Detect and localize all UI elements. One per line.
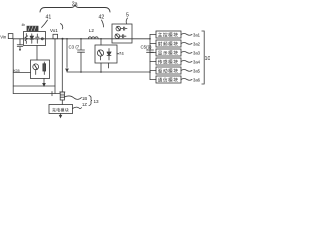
svg-text:Vo1: Vo1	[50, 28, 58, 33]
transistor Q5	[115, 34, 120, 39]
wire KD5	[13, 72, 30, 74]
transistor Q3	[107, 49, 111, 61]
svg-text:Vin: Vin	[0, 35, 7, 40]
svg-text:74: 74	[119, 51, 124, 56]
wire link box1 to box2	[36, 46, 38, 61]
wire mid module bottom	[67, 71, 150, 73]
leader 3a1	[181, 34, 192, 36]
arrow to bottom rail	[43, 79, 45, 87]
capacitor C1 input	[17, 39, 23, 50]
svg-text:41: 41	[46, 15, 52, 21]
leader from 74	[117, 52, 119, 55]
box power R.P.S.	[49, 105, 73, 114]
leader 12	[73, 107, 82, 109]
svg-text:驱动模块: 驱动模块	[158, 68, 179, 75]
svg-text:13: 13	[94, 99, 100, 104]
svg-text:4b: 4b	[22, 23, 26, 27]
brace 2a	[40, 5, 110, 13]
connector J1	[60, 91, 65, 93]
diode D1	[30, 34, 33, 44]
svg-text:3a1: 3a1	[193, 33, 201, 38]
box output 6	[156, 76, 181, 83]
leader 11	[64, 96, 81, 99]
svg-text:KD5: KD5	[14, 69, 20, 73]
transistor Q2	[97, 50, 103, 56]
capacitor C5	[147, 50, 154, 52]
leader from 41	[42, 20, 48, 28]
capacitor C3	[78, 39, 85, 72]
svg-text:通信模块: 通信模块	[158, 77, 179, 84]
svg-text:L2: L2	[89, 28, 95, 33]
box switch U4	[112, 24, 132, 43]
leader 3a5	[181, 70, 192, 72]
leader from 42	[102, 20, 104, 27]
arrow below box	[59, 114, 61, 118]
terminal Vin	[8, 34, 13, 39]
bracket 10	[202, 31, 204, 84]
svg-text:传感模块: 传感模块	[158, 59, 179, 66]
svg-text:3a5: 3a5	[193, 69, 201, 74]
svg-text:1Z: 1Z	[82, 102, 87, 107]
leader 3a4	[181, 61, 192, 63]
transistor Q1	[33, 64, 39, 70]
wire left module left edge	[12, 39, 14, 94]
transistor Q4	[116, 26, 121, 31]
box rectifier U3	[95, 45, 117, 63]
leader 3a6	[181, 79, 192, 81]
svg-text:10: 10	[205, 56, 211, 62]
wire stubs to output boxes	[150, 35, 156, 80]
wire left module bottom	[13, 85, 55, 87]
svg-text:显示模块: 显示模块	[158, 50, 179, 57]
wire stubs bottom	[101, 63, 109, 72]
wire Vo1 to connector	[61, 39, 63, 92]
brace 13	[89, 96, 92, 106]
svg-text:2a: 2a	[72, 1, 78, 7]
svg-text:3a6: 3a6	[193, 78, 201, 83]
svg-text:3a4: 3a4	[193, 60, 201, 65]
wire right bus	[149, 35, 151, 80]
box output 2	[156, 40, 181, 47]
leader hook at Vo1	[61, 24, 63, 30]
wire main rail	[13, 38, 150, 40]
wire mid module left edge	[66, 39, 68, 72]
leader 3a2	[181, 43, 192, 45]
leader from 5	[126, 18, 127, 24]
wire connector to box	[61, 100, 63, 105]
svg-text:3a2: 3a2	[193, 42, 201, 47]
svg-text:3a3: 3a3	[193, 51, 201, 56]
svg-text:射频模块: 射频模块	[158, 41, 179, 48]
box output 1	[156, 31, 181, 38]
wire left module right edge	[54, 39, 56, 94]
box converter U1	[24, 32, 46, 46]
junction tick	[51, 92, 53, 96]
svg-text:主控模块: 主控模块	[158, 32, 179, 39]
svg-text:1B: 1B	[82, 96, 87, 101]
box output 4	[156, 58, 181, 65]
resistor R1	[25, 34, 27, 44]
svg-text:C3 (7: C3 (7	[69, 45, 80, 50]
box regulator U2	[31, 60, 50, 79]
box output 5	[156, 67, 181, 74]
resistor R2	[43, 62, 45, 75]
wire ground rail lower	[13, 93, 60, 95]
svg-text:充电模块: 充电模块	[52, 108, 69, 113]
node dot	[41, 38, 43, 40]
wire stub top	[100, 39, 102, 45]
inductor 4b hatched	[27, 26, 38, 31]
box output 3	[156, 49, 181, 56]
capacitor C2	[36, 34, 39, 43]
terminal Vo1	[53, 34, 58, 38]
leader 3a3	[181, 52, 192, 54]
